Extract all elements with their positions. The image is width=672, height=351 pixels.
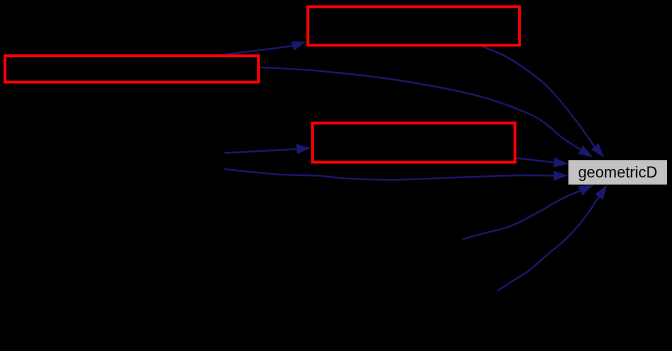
node: middle red box (truncated caller) (313, 123, 516, 162)
edge: top red box to geometricD node (482, 46, 604, 157)
edge: hidden caller to geometricD node (horizontal) (224, 169, 568, 181)
edge: left red box to top red box (214, 41, 306, 56)
node: left red box (truncated caller) (5, 56, 259, 82)
svg-text:geometricD: geometricD (578, 165, 657, 182)
node: geometricD (current function, gray) (568, 160, 667, 185)
edge: middle red box to geometricD node (515, 157, 568, 167)
edge: hidden caller to middle red box (225, 144, 312, 154)
edge: hidden caller to geometricD node (lower curve) (462, 185, 593, 240)
edge: hidden caller to geometricD node (bottom curve) (497, 185, 607, 291)
node: top red box (truncated caller) (308, 7, 520, 46)
edge: left red box to geometricD node (260, 67, 593, 157)
